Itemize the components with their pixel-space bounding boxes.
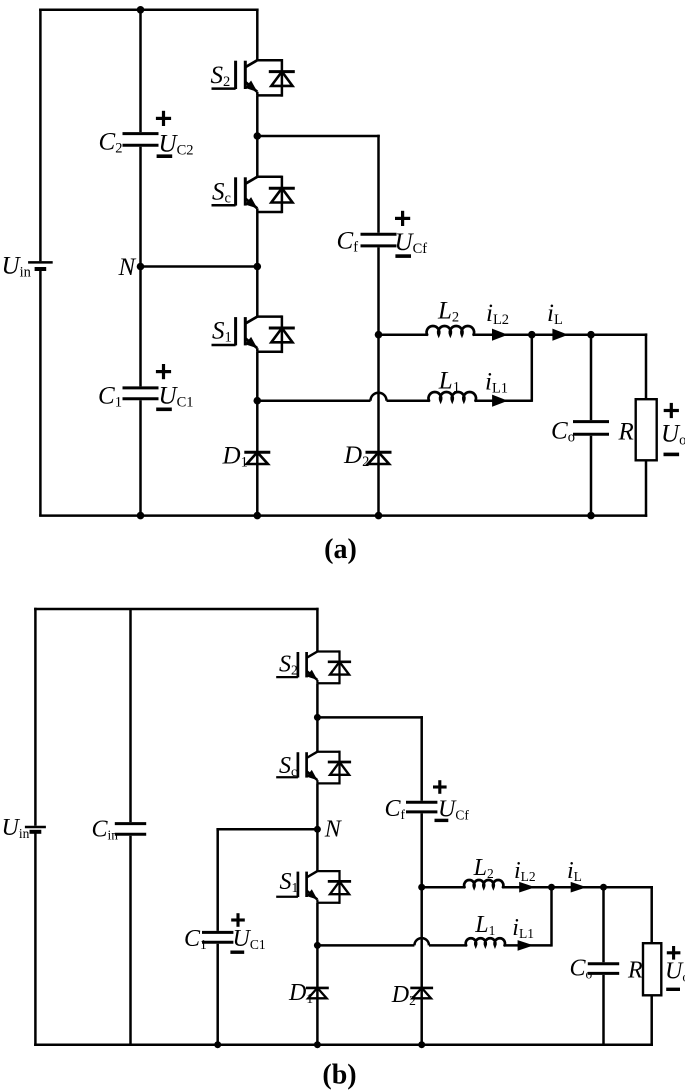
plus sign C2 [156, 117, 171, 120]
wire Co tap to R corner (a) [591, 333, 647, 336]
wire S2 to Sc (b) [316, 683, 319, 752]
svg-text:D1: D1 [288, 980, 313, 1006]
svg-text:C2: C2 [99, 129, 123, 157]
wire left column (b) upper [34, 608, 37, 826]
wire L1 riser (a) [531, 335, 534, 402]
wire D2 column (a) [377, 247, 380, 515]
wire Co tap to R corner (b) [604, 886, 654, 889]
svg-text:UC1: UC1 [233, 926, 266, 952]
wire junction to Co (a) [532, 333, 591, 336]
svg-text:Cf: Cf [385, 796, 406, 822]
wire R column upper (b) [650, 886, 653, 943]
node dot D2 column bottom (a) [375, 512, 383, 520]
capacitor C1 (a) [123, 386, 159, 389]
minus sign Cf (b) [435, 819, 449, 822]
svg-text:C1: C1 [98, 383, 122, 411]
wire switch column top (b) [316, 608, 319, 652]
transistor S1 (b) [317, 870, 339, 872]
diode D1 (a) [244, 451, 270, 454]
wire L1 lead-in (b) [317, 944, 414, 947]
resistor R (a) [636, 399, 657, 460]
wire Sc to S1 (b) [316, 783, 319, 871]
svg-text:(a): (a) [324, 534, 357, 565]
minus sign UC1 (b) [230, 951, 244, 954]
inductor L1 (b) [466, 938, 505, 945]
svg-text:Co: Co [570, 956, 593, 982]
svg-text:Uin: Uin [2, 253, 32, 281]
wire top rail (b) [34, 608, 319, 611]
node dot L2 tap (a) [375, 331, 383, 339]
wire S1 to bottom (b) [316, 903, 319, 1045]
inductor L2 (a) [427, 326, 474, 335]
minus sign Cf (a) [395, 254, 411, 258]
resistor R (b) [643, 943, 661, 995]
wire L1 riser (b) [550, 887, 553, 946]
capacitor Cf (b) [406, 801, 437, 804]
transistor Sc (b) [317, 751, 339, 753]
svg-text:L1: L1 [438, 367, 460, 395]
svg-text:UC2: UC2 [159, 131, 194, 159]
svg-text:R: R [618, 418, 634, 445]
wire left column (a) lower [39, 269, 42, 516]
diode D1 (b) [306, 987, 329, 990]
wire Cin column upper (b) [129, 609, 132, 822]
svg-text:D2: D2 [391, 982, 416, 1008]
wire L2 lead-in (a) [379, 333, 428, 336]
plus sign Uo (b) [667, 951, 681, 954]
wire Co column lower (a) [590, 436, 593, 516]
wire L2 lead-in (b) [422, 886, 465, 889]
arrow iL2 (b) [519, 882, 535, 893]
wire left column (a) upper [39, 9, 42, 262]
wire flying-cap branch down (a) [377, 135, 380, 233]
wire C1 column lower (b) [216, 944, 219, 1045]
wire hop to L1 (a) [387, 399, 430, 402]
minus sign C1 (a) [156, 407, 172, 411]
svg-text:D2: D2 [343, 442, 369, 470]
transistor S1 (a) [257, 315, 282, 318]
svg-text:UCf: UCf [395, 229, 428, 257]
arrow iL (b) [571, 882, 587, 893]
inductor L1 (a) [429, 392, 476, 401]
plus sign C1 (b) [231, 918, 245, 921]
capacitor Cin (b) [115, 822, 146, 825]
arrow iL2 (a) [492, 329, 508, 341]
svg-text:Co: Co [551, 417, 575, 445]
svg-text:L2: L2 [437, 298, 459, 326]
wire L1 to corner (a) [476, 399, 532, 402]
capacitor Co (b) [588, 962, 619, 965]
wire Sc to S1 (a) [256, 212, 259, 317]
minus sign C2 [157, 154, 173, 158]
wire Co column lower (b) [602, 975, 605, 1045]
svg-text:UCf: UCf [438, 797, 469, 823]
transistor S2 (b) [317, 650, 339, 652]
svg-text:iL: iL [547, 300, 563, 328]
svg-text:L2: L2 [473, 855, 494, 881]
capacitor C2 [123, 132, 159, 135]
wire L2 to junction (a) [474, 333, 532, 336]
svg-text:Cf: Cf [337, 228, 359, 256]
node dot C1 bottom (b) [214, 1041, 221, 1048]
minus sign Uo (b) [666, 988, 680, 991]
svg-text:D1: D1 [222, 443, 248, 471]
svg-text:(b): (b) [322, 1060, 356, 1091]
wire C column (a) lower [139, 400, 142, 515]
minus sign Uo (a) [664, 453, 680, 457]
svg-text:iL1: iL1 [485, 368, 508, 396]
wire C1 column upper (b) [216, 829, 219, 931]
svg-text:N: N [324, 817, 343, 843]
wire Cin column lower (b) [129, 836, 132, 1045]
arrow iL1 (a) [492, 395, 508, 407]
wire flying-cap branch horizontal (b) [317, 716, 423, 719]
plus sign Cf (a) [395, 217, 410, 220]
node dot below S1 (b) [314, 942, 321, 949]
svg-text:iL1: iL1 [512, 915, 534, 941]
svg-text:Uin: Uin [2, 815, 30, 841]
source Uin (b) [25, 826, 46, 829]
node dot S2-Sc (a) [253, 132, 261, 140]
svg-text:S1: S1 [212, 318, 232, 346]
svg-text:Sc: Sc [279, 753, 297, 779]
svg-text:iL: iL [567, 858, 582, 884]
wire hop to L1 (b) [429, 944, 466, 947]
wire R column lower (a) [645, 460, 648, 517]
node dot D2 column bottom (b) [418, 1041, 425, 1048]
wire Co column upper (b) [602, 887, 605, 962]
node dot bottom C column (a) [137, 512, 145, 520]
wire flying-cap branch horizontal (a) [257, 135, 380, 138]
wire S2 to Sc (a) [256, 95, 259, 176]
wire top rail (a) [39, 9, 259, 12]
svg-text:C1: C1 [184, 926, 207, 952]
svg-text:S1: S1 [280, 869, 299, 895]
node N dot right (a) [253, 263, 261, 271]
node dot below S1 (a) [253, 397, 261, 405]
node dot S column bottom (b) [314, 1041, 321, 1048]
node dot bottom Co column (a) [587, 512, 595, 520]
node dot Co tap (b) [600, 884, 607, 891]
diode D2 (a) [366, 451, 392, 454]
wire bottom rail (a) [39, 514, 647, 517]
transistor Sc (a) [257, 176, 282, 179]
wire C column (a) middle [139, 147, 142, 387]
svg-text:R: R [627, 958, 643, 984]
wire left column (b) lower [34, 832, 37, 1046]
wire switch column top (a) [256, 9, 259, 61]
wire node N rail (a) [141, 265, 258, 268]
node dot Co tap (a) [587, 331, 595, 339]
svg-text:S2: S2 [279, 652, 298, 678]
wire node N rail (b) [216, 828, 317, 831]
wire D2 column (b) [420, 813, 423, 1044]
arrow iL1 (b) [518, 940, 534, 951]
wire R column lower (b) [650, 995, 653, 1046]
node N dot left (a) [137, 263, 145, 271]
svg-text:Cin: Cin [92, 817, 119, 843]
diode D2 (b) [410, 987, 433, 990]
node dot L2 tap (b) [418, 884, 425, 891]
wire Co column upper (a) [590, 335, 593, 420]
svg-text:iL2: iL2 [514, 858, 536, 884]
wire L1 to corner (b) [505, 944, 552, 947]
plus sign C1 (a) [156, 370, 171, 373]
node dot top of C column (a) [137, 6, 145, 14]
capacitor C1 (b) [202, 931, 233, 934]
wire flying-cap branch down (b) [420, 716, 423, 801]
wire L1 lead-in (a) [257, 399, 370, 402]
wire S1 to bottom (a) [256, 352, 259, 516]
wire hop over D2 column (a) [371, 393, 387, 401]
source Uin (a) [28, 261, 53, 264]
svg-text:Uo: Uo [665, 959, 685, 985]
capacitor Co (a) [573, 420, 609, 423]
svg-text:UC1: UC1 [159, 383, 194, 411]
svg-text:iL2: iL2 [486, 300, 509, 328]
capacitor Cf (a) [361, 233, 397, 236]
node dot L1 joins L2 (a) [528, 331, 536, 339]
svg-text:L1: L1 [474, 912, 495, 938]
wire R column upper (a) [645, 333, 648, 399]
wire bottom rail (b) [34, 1043, 653, 1046]
svg-text:Uo: Uo [661, 421, 685, 449]
svg-text:N: N [118, 254, 137, 281]
inductor L2 (b) [464, 880, 503, 887]
arrow iL (a) [552, 329, 568, 341]
wire L2 to junction (b) [503, 886, 552, 889]
wire C column (a) upper [139, 10, 142, 132]
node dot L1 joins L2 (b) [548, 884, 555, 891]
plus sign Uo (a) [664, 409, 679, 412]
plus sign Cf (b) [433, 785, 447, 788]
svg-text:Sc: Sc [212, 179, 231, 207]
wire junction to Co (b) [552, 886, 604, 889]
wire hop over D2 column (b) [414, 938, 429, 945]
node N dot (b) [314, 826, 321, 833]
transistor S2 (a) [257, 59, 282, 62]
node dot S column bottom (a) [253, 512, 261, 520]
node dot S2-Sc (b) [314, 714, 321, 721]
svg-text:S2: S2 [211, 62, 231, 90]
